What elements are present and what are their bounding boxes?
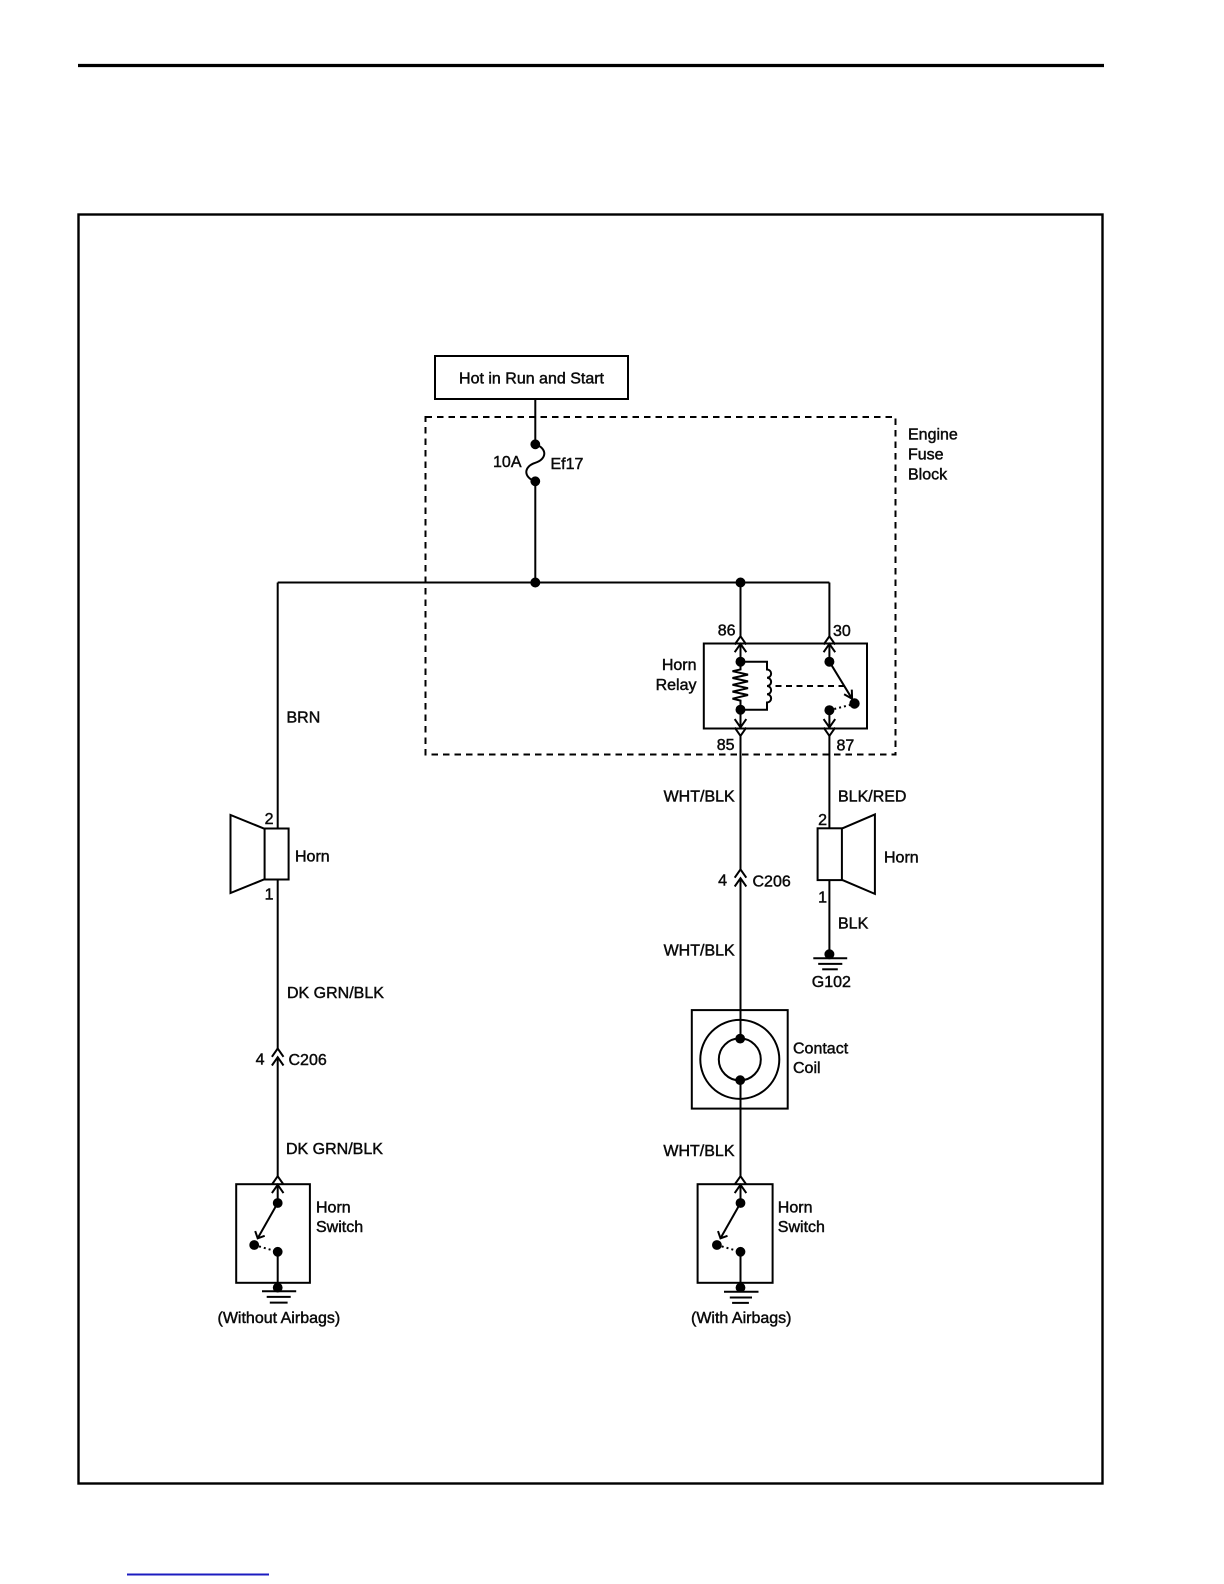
pin 30 chevrons: [824, 636, 836, 644]
ground (left switch): [274, 1284, 282, 1292]
relay switch arm with arrowhead: [829, 662, 852, 699]
horn (left) cone: [231, 815, 265, 893]
Engine Fuse Block dashed boundary: [426, 417, 896, 755]
svg-text:2: 2: [265, 811, 274, 828]
relay actuation dashed link: [776, 685, 846, 687]
pin 86 chevrons: [735, 636, 747, 644]
wire BRN: bus down to left horn: [277, 583, 279, 829]
svg-text:Horn: Horn: [295, 849, 330, 866]
junction node at relay 86 drop: [737, 579, 745, 587]
wire pin1 to connector C206: [277, 880, 279, 1049]
relay switch common node (30): [825, 658, 833, 666]
svg-text:Engine: Engine: [908, 427, 958, 444]
svg-text:Fuse: Fuse: [908, 447, 944, 464]
relay pin 86 wire from bus: [740, 583, 742, 637]
wire BLK to ground: [828, 880, 830, 954]
svg-text:85: 85: [717, 737, 735, 754]
svg-text:Coil: Coil: [793, 1060, 821, 1077]
relay coil top node: [737, 658, 745, 666]
svg-text:DK GRN/BLK: DK GRN/BLK: [287, 985, 384, 1002]
switch (right) common node: [737, 1199, 745, 1207]
horn switch (left) box: [236, 1184, 310, 1283]
svg-text:Horn: Horn: [662, 657, 697, 674]
wire to ground (left): [277, 1252, 279, 1288]
svg-text:BRN: BRN: [287, 710, 321, 727]
svg-text:BLK: BLK: [838, 916, 869, 933]
svg-text:DK GRN/BLK: DK GRN/BLK: [286, 1141, 383, 1158]
svg-text:4: 4: [718, 873, 727, 890]
svg-text:Relay: Relay: [656, 677, 697, 694]
relay pin 30 wire from bus corner: [828, 583, 830, 637]
svg-text:87: 87: [837, 738, 855, 755]
relay coil winding: [741, 662, 772, 710]
svg-text:Switch: Switch: [316, 1219, 363, 1236]
svg-text:(Without Airbags): (Without Airbags): [218, 1310, 341, 1327]
relay contact node: [850, 699, 858, 707]
junction node at fuse drop: [531, 579, 539, 587]
horn (left) body rect: [265, 829, 289, 880]
horn relay box: [704, 644, 867, 729]
switch (left) dotted closure: [254, 1245, 278, 1252]
svg-text:Horn: Horn: [316, 1200, 351, 1217]
wire into switch: [277, 1185, 279, 1203]
svg-text:WHT/BLK: WHT/BLK: [663, 1143, 734, 1160]
svg-text:G102: G102: [812, 974, 851, 991]
wire to coil node: [740, 644, 742, 662]
pin 85 chevrons (down): [735, 719, 747, 727]
wire to ground (right switch): [740, 1252, 742, 1288]
horn switch (right) pin chevrons: [735, 1176, 747, 1184]
switch (left) arm with arrowhead: [258, 1203, 278, 1238]
connector C206 (left) chevrons: [272, 1049, 284, 1057]
svg-text:4: 4: [256, 1052, 265, 1069]
svg-text:WHT/BLK: WHT/BLK: [664, 789, 735, 806]
switch (left) throw contact node: [250, 1241, 258, 1249]
switch (left) common node: [274, 1199, 282, 1207]
relay dotted closure: [829, 705, 852, 711]
switch (right) dotted closure: [717, 1245, 741, 1252]
horn (right) cone: [842, 814, 875, 894]
pin 87 chevrons (down): [824, 719, 836, 727]
svg-text:1: 1: [265, 887, 274, 904]
svg-text:Ef17: Ef17: [551, 456, 584, 473]
wire coil to horn switch: [740, 1080, 742, 1176]
wire fuse to bus: [534, 481, 536, 582]
svg-text:Horn: Horn: [778, 1200, 813, 1217]
svg-text:10A: 10A: [493, 454, 522, 471]
svg-text:2: 2: [818, 812, 827, 829]
horn switch (left) pin chevrons: [272, 1176, 284, 1184]
contact coil box: [692, 1010, 788, 1109]
horn (right) body rect: [818, 828, 842, 880]
svg-text:C206: C206: [289, 1052, 327, 1069]
fuse Ef17 10A: [526, 444, 544, 481]
relay coil bottom node: [737, 706, 745, 714]
connector C206 (right) chevrons: [735, 869, 747, 877]
contact coil outer ring: [700, 1020, 779, 1099]
wire 85 down to C206: [740, 736, 742, 870]
svg-text:Horn: Horn: [884, 850, 919, 867]
pin 85 wire: [740, 710, 742, 728]
header rule: [78, 64, 1104, 67]
svg-text:BLK/RED: BLK/RED: [838, 789, 906, 806]
wire from power box to fuse: [534, 399, 536, 444]
switch (right) throw contact node: [713, 1241, 721, 1249]
svg-text:Switch: Switch: [778, 1219, 825, 1236]
svg-text:30: 30: [833, 623, 851, 640]
switch (right) arm with arrowhead: [721, 1203, 741, 1238]
ground (right switch): [737, 1284, 745, 1292]
contact coil top node: [736, 1035, 744, 1043]
ground G102: [825, 950, 833, 958]
switch (right) output node: [737, 1248, 745, 1256]
svg-text:86: 86: [718, 623, 736, 640]
svg-text:(With Airbags): (With Airbags): [691, 1310, 791, 1327]
svg-text:Hot in Run and Start: Hot in Run and Start: [459, 371, 605, 388]
horn switch (right) box: [698, 1184, 773, 1283]
link underline (blue): [127, 1574, 269, 1576]
bus wire horizontal: [278, 582, 830, 584]
page border frame: [79, 215, 1103, 1484]
wire into switch: [740, 1185, 742, 1203]
pin 87 wire: [828, 710, 830, 727]
contact coil bottom node: [736, 1076, 744, 1084]
relay output node (87): [825, 706, 833, 714]
switch (left) output node: [274, 1248, 282, 1256]
relay resistor zigzag: [733, 662, 749, 710]
wire C206 to contact coil: [740, 878, 742, 1038]
wire 87 down to right horn: [828, 736, 830, 828]
svg-text:Block: Block: [908, 467, 948, 484]
power source box "Hot in Run and Start": [435, 356, 628, 399]
svg-text:Contact: Contact: [793, 1041, 849, 1058]
contact coil inner ring: [719, 1038, 761, 1080]
svg-text:WHT/BLK: WHT/BLK: [664, 943, 735, 960]
wire C206 to horn switch: [277, 1057, 279, 1176]
svg-text:1: 1: [818, 890, 827, 907]
svg-text:C206: C206: [753, 874, 791, 891]
